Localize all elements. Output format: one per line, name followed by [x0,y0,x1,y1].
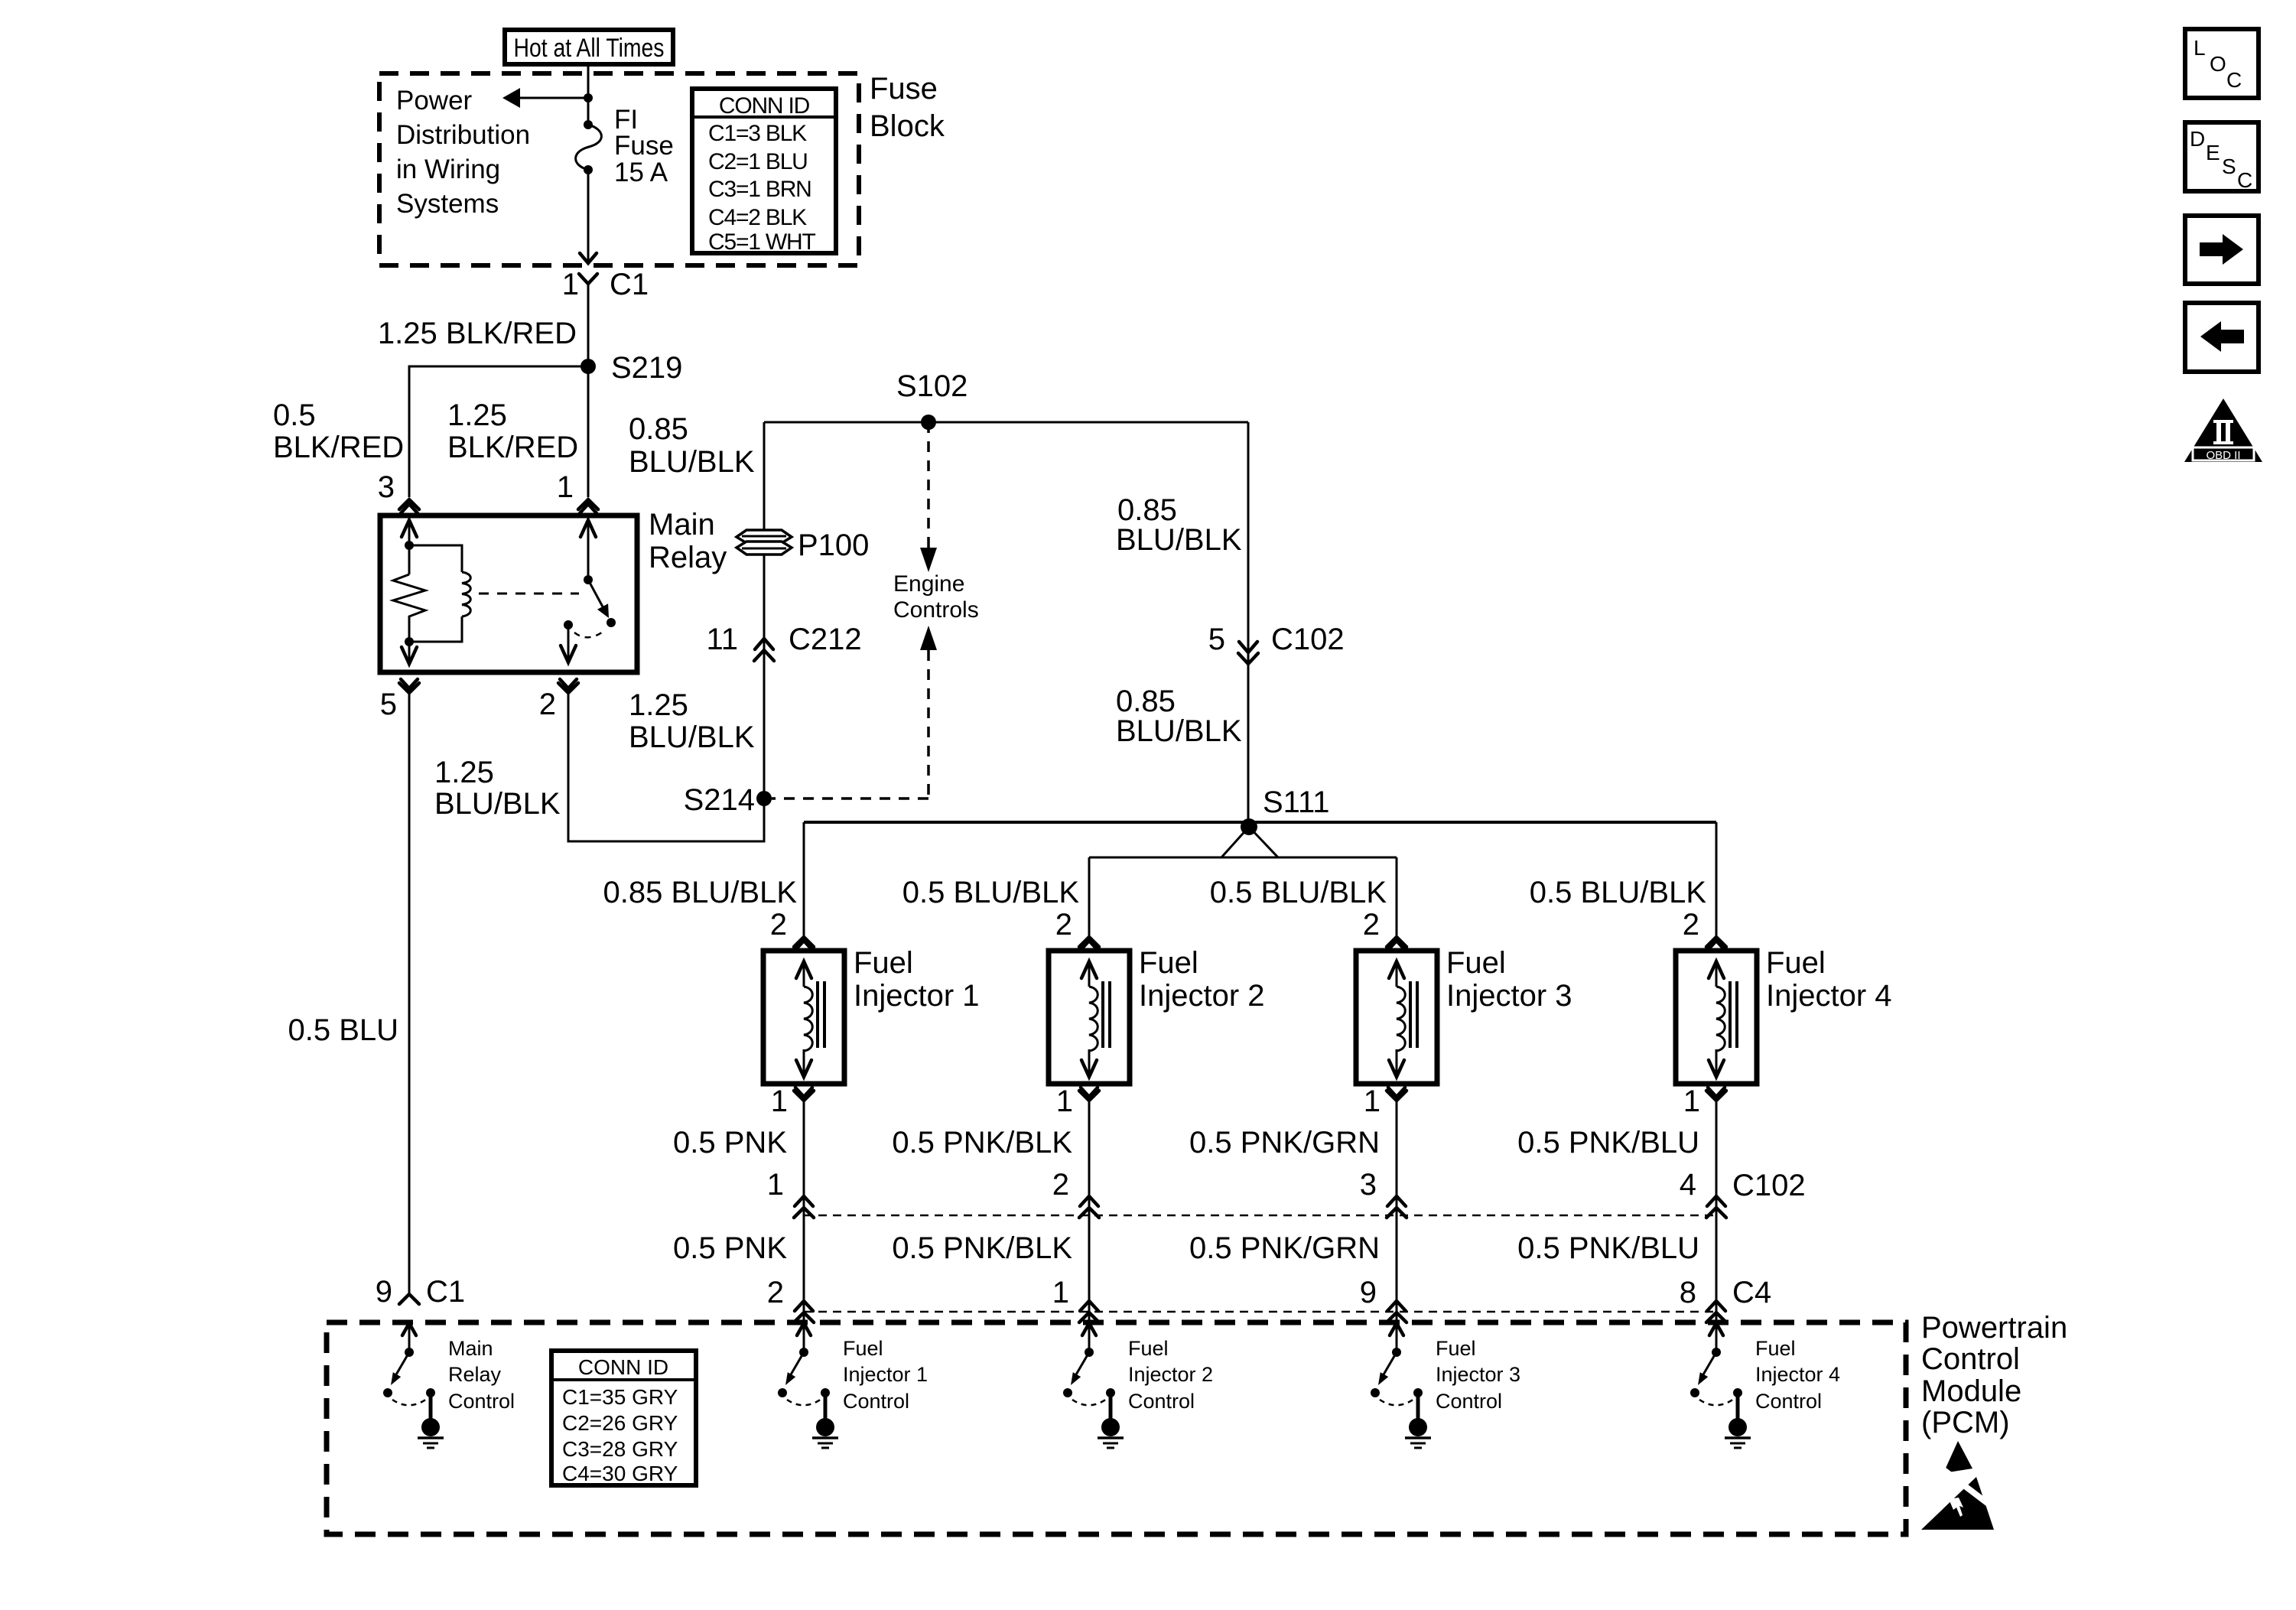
svg-text:3: 3 [1360,1168,1377,1202]
main relay control driver [383,1323,444,1448]
svg-text:Fuel: Fuel [1446,946,1506,980]
svg-text:2: 2 [539,688,556,721]
svg-text:L: L [2194,36,2206,60]
svg-text:C2=26 GRY: C2=26 GRY [562,1411,678,1435]
svg-text:Injector 1: Injector 1 [843,1363,928,1386]
svg-text:0.85: 0.85 [1117,493,1177,527]
LOC hyperlink icon [2185,29,2259,98]
wire S214 up through C212, P100 to S102 line [763,422,766,798]
svg-text:0.5 BLU/BLK: 0.5 BLU/BLK [902,876,1080,909]
main relay box [380,516,637,672]
label 0.85 BLU/BLK (P100 wire) [629,412,755,479]
svg-text:0.5: 0.5 [273,398,316,432]
relay actuate dashed link [479,593,579,595]
svg-text:S214: S214 [684,783,755,817]
svg-text:0.5 PNK/BLU: 0.5 PNK/BLU [1517,1231,1699,1265]
splice S214 [684,783,772,817]
svg-text:2: 2 [770,908,787,942]
svg-text:C4=30 GRY: C4=30 GRY [562,1462,678,1485]
svg-text:C102: C102 [1732,1169,1806,1202]
svg-text:BLU/BLK: BLU/BLK [1116,714,1242,748]
svg-text:BLU/BLK: BLU/BLK [629,445,755,479]
label Main Relay [649,508,727,574]
connector C1 pin 9 (main relay control) [376,1275,465,1309]
DESC hyperlink icon [2185,122,2259,192]
svg-text:3: 3 [378,470,395,504]
relay coil [409,545,470,642]
Hot at All Times box [505,30,673,64]
svg-text:S219: S219 [611,351,682,385]
fuel injector 3 [1356,937,1437,1324]
svg-text:Main: Main [448,1337,493,1360]
right arrow icon [2185,216,2259,284]
wire C1 to relay pin 1 [587,284,590,497]
svg-text:(PCM): (PCM) [1921,1406,2010,1439]
svg-text:0.5 PNK: 0.5 PNK [673,1231,787,1265]
label 0.5 BLK/RED [273,398,404,464]
svg-text:0.5 PNK/GRN: 0.5 PNK/GRN [1189,1231,1380,1265]
svg-text:Injector 4: Injector 4 [1766,979,1892,1013]
svg-text:Injector 4: Injector 4 [1755,1363,1840,1386]
svg-text:BLK/RED: BLK/RED [447,431,578,464]
svg-text:in Wiring: in Wiring [396,154,500,184]
relay pin 1 [557,470,598,513]
connector C1 pin 1 [562,268,649,301]
fuse FI 15A [576,120,602,174]
svg-text:1: 1 [767,1168,784,1202]
svg-text:1.25 BLK/RED: 1.25 BLK/RED [378,317,577,350]
svg-text:Injector 3: Injector 3 [1446,979,1572,1013]
svg-text:Module: Module [1921,1374,2021,1408]
connector C212 pin 11 [706,623,861,661]
splice S102 [896,369,968,430]
label 1.25 BLK/RED (pin1) [447,398,578,464]
svg-text:0.5 PNK/BLK: 0.5 PNK/BLK [892,1231,1072,1265]
svg-text:Fuse: Fuse [614,131,674,161]
svg-text:Main: Main [649,508,715,542]
svg-text:C5=1 WHT: C5=1 WHT [708,229,815,255]
fuel injector 2 control driver [1063,1323,1124,1448]
pass-through grommet P100 [737,529,869,562]
label 1.25 BLU/BLK (pin2) [629,688,755,754]
CONN ID table (fuse block) [692,89,836,255]
C4 connector dashed line [804,1311,1716,1313]
svg-text:Fuel: Fuel [1128,1337,1169,1360]
svg-text:1.25: 1.25 [434,756,494,789]
svg-text:Control: Control [1436,1390,1502,1413]
svg-text:15 A: 15 A [614,158,668,187]
C102 connector dashed line [804,1215,1716,1217]
svg-text:Engine: Engine [893,571,964,597]
label Power Distribution in Wiring Systems [396,86,530,219]
fuel injector 1 control driver [778,1323,838,1448]
svg-text:0.85: 0.85 [629,412,688,446]
svg-text:Relay: Relay [448,1363,502,1386]
svg-text:0.5 PNK/BLK: 0.5 PNK/BLK [892,1126,1072,1160]
wire fuse to C1 with arrow [580,170,597,263]
svg-text:1: 1 [1056,1085,1073,1118]
svg-text:C4=2 BLK: C4=2 BLK [708,205,807,230]
svg-text:S111: S111 [1263,785,1329,819]
relay coil branch wire [393,520,425,664]
svg-text:C1: C1 [610,268,649,301]
svg-text:Control: Control [843,1390,909,1413]
svg-text:Block: Block [870,109,945,143]
svg-text:2: 2 [767,1276,784,1309]
svg-text:0.5 PNK: 0.5 PNK [673,1126,787,1160]
svg-text:BLK/RED: BLK/RED [273,431,404,464]
svg-text:Control: Control [1755,1390,1822,1413]
wire relay pin2 to S214 [568,693,764,841]
svg-text:4: 4 [1680,1168,1696,1202]
label Engine Controls [893,571,979,623]
svg-text:E: E [2206,141,2220,164]
splice S219 [581,351,682,385]
wire relay pin5 to PCM [408,693,411,1293]
svg-text:0.5 BLU/BLK: 0.5 BLU/BLK [1530,876,1707,909]
svg-text:0.85: 0.85 [1116,685,1176,718]
svg-text:C1: C1 [426,1275,465,1309]
svg-text:O: O [2210,52,2226,76]
fuel injector 1 [763,937,844,1324]
relay resistor [393,574,425,642]
label 0.85 BLU/BLK (below C102) [1116,685,1242,748]
relay pin 5 [380,679,419,721]
label 1.25 BLU/BLK (S214 wire) [434,756,561,821]
svg-text:Fuel: Fuel [1766,946,1826,980]
svg-text:C2=1 BLU: C2=1 BLU [708,149,808,174]
svg-text:1: 1 [771,1085,788,1118]
S111 bus wires [804,822,1716,937]
svg-text:1: 1 [1052,1276,1069,1309]
svg-text:11: 11 [706,623,738,656]
svg-text:1: 1 [557,470,574,504]
fuel injector 4 [1676,937,1757,1324]
splice S111 [1241,785,1329,835]
OBD II icon [2184,398,2262,462]
svg-text:Control: Control [448,1390,515,1413]
svg-text:Fuse: Fuse [870,72,938,106]
svg-text:Control: Control [1128,1390,1195,1413]
svg-text:1.25: 1.25 [447,398,507,432]
fuel injector 4 control driver [1690,1323,1751,1448]
svg-text:Injector 3: Injector 3 [1436,1363,1520,1386]
relay switch [561,520,616,662]
svg-text:9: 9 [376,1275,392,1309]
engine controls dashed link [772,422,937,798]
svg-text:Fuel: Fuel [1755,1337,1796,1360]
svg-text:BLU/BLK: BLU/BLK [434,787,561,821]
fuel injector 2 [1049,937,1130,1324]
svg-text:Fuel: Fuel [843,1337,883,1360]
svg-text:1: 1 [562,268,579,301]
svg-text:Fuel: Fuel [1436,1337,1476,1360]
svg-text:2: 2 [1683,908,1699,942]
svg-text:C: C [2237,168,2252,192]
svg-text:0.5 PNK/GRN: 0.5 PNK/GRN [1189,1126,1380,1160]
svg-text:Fuel: Fuel [854,946,913,980]
connector C102 pin 5 [1208,623,1345,664]
svg-text:2: 2 [1363,908,1380,942]
svg-text:Injector 2: Injector 2 [1139,979,1265,1013]
wire S219 to relay pin 3 [409,366,588,497]
svg-text:Injector 2: Injector 2 [1128,1363,1213,1386]
svg-text:C212: C212 [789,623,862,656]
power distribution arrow [502,88,593,108]
svg-text:C3=1 BRN: C3=1 BRN [708,177,811,202]
relay pin 2 [539,679,578,721]
svg-text:2: 2 [1055,908,1072,942]
wire down to S111 [1247,422,1250,822]
svg-text:C1=35 GRY: C1=35 GRY [562,1385,678,1409]
label Fuse Block [870,72,945,143]
svg-text:D: D [2190,127,2205,151]
svg-text:0.5 BLU/BLK: 0.5 BLU/BLK [1210,876,1387,909]
label Powertrain Control Module (PCM) [1921,1311,2067,1439]
svg-text:Power: Power [396,86,473,115]
label FI Fuse 15 A [614,105,674,187]
svg-text:P100: P100 [798,529,869,562]
svg-text:S102: S102 [896,369,968,403]
wire S102 horizontal [764,421,1248,424]
svg-text:9: 9 [1360,1276,1377,1309]
svg-text:5: 5 [1208,623,1225,656]
svg-text:Powertrain: Powertrain [1921,1311,2067,1345]
svg-text:C4: C4 [1732,1276,1771,1309]
left arrow icon [2185,303,2259,372]
CONN ID table (PCM) [551,1351,696,1485]
svg-text:CONN ID: CONN ID [719,93,810,119]
svg-text:Control: Control [1921,1342,2020,1376]
svg-text:C3=28 GRY: C3=28 GRY [562,1437,678,1461]
svg-text:1: 1 [1683,1085,1700,1118]
fuse block dashed box [379,73,859,265]
svg-text:C1=3 BLK: C1=3 BLK [708,121,807,146]
svg-text:Systems: Systems [396,189,499,219]
svg-text:1: 1 [1364,1085,1381,1118]
PCM dashed box [327,1322,1906,1534]
svg-text:0.5 BLU: 0.5 BLU [288,1013,398,1047]
fuel injector 3 control driver [1371,1323,1431,1448]
svg-text:CONN ID: CONN ID [578,1355,668,1379]
relay pin 3 [378,470,419,513]
svg-text:0.85 BLU/BLK: 0.85 BLU/BLK [603,876,798,909]
svg-text:BLU/BLK: BLU/BLK [629,720,755,754]
svg-text:S: S [2222,154,2236,178]
ESD caution symbol [1921,1441,1996,1530]
svg-text:Distribution: Distribution [396,120,530,150]
svg-text:8: 8 [1680,1276,1696,1309]
svg-text:Controls: Controls [893,597,979,623]
wire hot to fuse [587,64,590,125]
svg-text:C102: C102 [1271,623,1345,656]
svg-text:Injector 1: Injector 1 [854,979,980,1013]
label 0.85 BLU/BLK (above C102) [1116,493,1242,557]
svg-text:0.5 PNK/BLU: 0.5 PNK/BLU [1517,1126,1699,1160]
svg-text:5: 5 [380,688,397,721]
svg-text:Relay: Relay [649,541,727,574]
svg-text:2: 2 [1052,1168,1069,1202]
svg-text:Hot at All Times: Hot at All Times [514,34,665,63]
svg-text:Fuel: Fuel [1139,946,1198,980]
svg-text:OBD II: OBD II [2206,449,2240,462]
svg-text:C: C [2226,68,2242,92]
svg-text:1.25: 1.25 [629,688,688,722]
svg-text:BLU/BLK: BLU/BLK [1116,523,1242,557]
